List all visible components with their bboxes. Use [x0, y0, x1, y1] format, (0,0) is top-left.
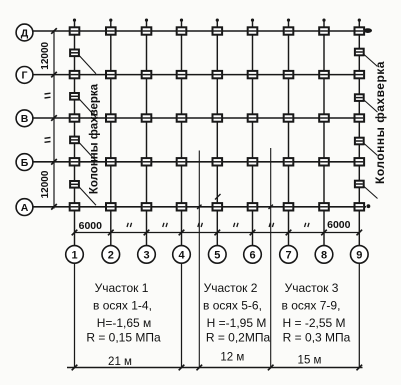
column square 7-Д	[284, 27, 294, 34]
column square 9-Д	[355, 27, 365, 34]
ditto mark span at x=270	[269, 223, 270, 227]
fachwerk column square axis1 y=52	[70, 50, 79, 57]
column square 9-В	[355, 114, 365, 121]
tick bottom dim at axis 5	[215, 230, 221, 236]
ditto mark (В-Б)	[45, 137, 51, 140]
column square 8-Д	[319, 27, 329, 34]
leader fachwerk left y=96	[79, 98, 97, 117]
svg-text:12 м: 12 м	[220, 352, 244, 364]
column square 2-В	[106, 114, 116, 121]
fachwerk column square axis1 y=96	[70, 93, 79, 100]
svg-text:Д: Д	[21, 27, 29, 39]
wire section boundary 2 (x=271)	[270, 148, 272, 368]
axis circle А	[16, 199, 33, 216]
column square 3-В	[142, 114, 152, 121]
svg-text:15 м: 15 м	[298, 355, 322, 367]
column square 5-Б	[213, 158, 223, 165]
ditto mark span at x=128	[127, 223, 128, 227]
column square 8-Г	[319, 71, 329, 78]
wire axis Г horizontal	[33, 74, 365, 76]
wire axis Д horizontal	[33, 30, 365, 32]
svg-text:1: 1	[71, 249, 77, 261]
wire bottom section line	[67, 367, 363, 369]
tick boundary2 at row А	[269, 205, 273, 209]
column square 5-Д	[213, 27, 223, 34]
tick bottom line x=359	[357, 365, 363, 371]
tick bottom line x=181	[179, 365, 185, 371]
tick bottom dim at axis 9	[357, 230, 363, 236]
tick bottom dim at axis 2	[108, 230, 114, 236]
leader fachwerk left y=52	[79, 55, 97, 74]
node top dot axis 4	[180, 19, 183, 22]
tick bottom dim at axis 4	[179, 230, 185, 236]
svg-text:в осях 5-6,: в осях 5-6,	[203, 299, 262, 313]
column square 7-Б	[284, 158, 294, 165]
column square 8-А	[319, 203, 329, 210]
tick bottom dim at axis 3	[144, 230, 150, 236]
fachwerk column square axis9 y=97	[355, 94, 364, 101]
column square 7-Г	[284, 71, 294, 78]
node top dot axis 8	[322, 19, 325, 22]
wire axis 3 vertical	[146, 21, 148, 246]
svg-text:Н=-1,65 м: Н=-1,65 м	[97, 316, 152, 330]
svg-text:Н = -2,55 М: Н = -2,55 М	[282, 316, 345, 330]
column square 2-Д	[106, 27, 116, 34]
wire axis 1 vertical	[74, 21, 76, 246]
tick left dim at axis А	[51, 204, 57, 210]
column square 6-Д	[248, 27, 258, 34]
column square 7-В	[284, 114, 294, 121]
node top dot axis 3	[145, 19, 148, 22]
axis circle 8	[315, 246, 333, 264]
node top dot axis 7	[287, 19, 290, 22]
leader fachwerk right y=97	[364, 100, 378, 113]
wire axis Б horizontal	[33, 161, 365, 163]
axis circle Г	[16, 67, 33, 84]
column square 7-А	[284, 203, 294, 210]
node top dot axis 5	[216, 19, 219, 22]
column square 2-А	[106, 203, 116, 210]
column square 6-А	[248, 203, 258, 210]
fachwerk column square axis1 y=139	[70, 137, 79, 144]
svg-text:Участок 1: Участок 1	[95, 281, 149, 295]
wire left dimension line	[53, 30, 55, 209]
leader fachwerk left y=184	[79, 186, 97, 205]
wire axis 8 vertical	[323, 21, 325, 246]
svg-text:в осях 1-4,: в осях 1-4,	[93, 299, 152, 313]
wire axis В horizontal	[33, 117, 365, 119]
node top dot axis 9	[358, 19, 361, 22]
column square 9-Б	[355, 158, 365, 165]
wire axis 7 vertical	[288, 21, 290, 246]
leader fachwerk left y=139	[79, 142, 97, 161]
tick bottom line x=74	[72, 365, 78, 371]
leader fachwerk right y=141	[364, 143, 378, 156]
wire axis 5 vertical	[216, 21, 218, 246]
svg-text:4: 4	[178, 249, 185, 261]
ditto mark span at x=306	[305, 223, 306, 227]
column square 4-А	[177, 203, 187, 210]
blob right end axis Д	[364, 28, 372, 33]
column square 8-Б	[319, 158, 329, 165]
axis circle В	[16, 110, 33, 127]
svg-text:R = 0,3 МПа: R = 0,3 МПа	[283, 331, 351, 345]
ditto mark (Г-В)	[45, 92, 51, 95]
column square 6-Г	[248, 71, 258, 78]
ditto mark span at x=199	[198, 223, 199, 227]
tick bottom line x=270	[268, 365, 274, 371]
tick left dim at axis Д	[51, 28, 57, 34]
column square 1-Б	[70, 158, 80, 165]
wire axis 9 vertical	[358, 21, 360, 246]
svg-text:6000: 6000	[79, 220, 103, 232]
column square 5-В	[213, 114, 223, 121]
axis circle Б	[16, 154, 33, 171]
column square 2-Г	[106, 71, 116, 78]
tick bottom dim at axis 6	[250, 230, 256, 236]
svg-text:6000: 6000	[327, 219, 351, 231]
wire axis 6 vertical	[252, 21, 254, 246]
axis circle 5	[209, 246, 227, 264]
tick bottom line x=199	[197, 365, 203, 371]
column square 4-Д	[177, 27, 187, 34]
wire axis 4 vertical	[181, 21, 183, 246]
wire axis 1 below circle	[74, 263, 76, 367]
fachwerk column square axis1 y=184	[70, 181, 79, 188]
column square 1-Г	[70, 71, 80, 78]
svg-text:А: А	[21, 202, 29, 214]
column square 6-Б	[248, 158, 258, 165]
svg-text:21 м: 21 м	[108, 356, 132, 368]
column square 1-Д	[70, 27, 80, 34]
column square 3-Г	[142, 71, 152, 78]
fachwerk column square axis9 y=141	[355, 138, 364, 145]
column square 8-В	[319, 114, 329, 121]
column square 1-В	[70, 114, 80, 121]
wire axis А horizontal	[33, 206, 366, 208]
axis circle Д	[16, 24, 33, 41]
tick bottom dim at axis 8	[321, 230, 327, 236]
axis circle 6	[244, 246, 262, 264]
ditto mark span at x=164	[163, 223, 164, 227]
svg-text:12000: 12000	[40, 41, 51, 69]
axis circle 4	[173, 246, 191, 264]
column square 4-Г	[177, 71, 187, 78]
tick left dim at axis Г	[51, 72, 57, 78]
fachwerk column square axis9 y=184	[355, 181, 364, 188]
svg-text:9: 9	[356, 249, 362, 261]
node top dot axis 1	[73, 19, 76, 22]
column square 5-Г	[213, 71, 223, 78]
wire bottom dimension line	[75, 232, 360, 234]
column square 3-Д	[142, 27, 152, 34]
tick left dim at axis Б	[51, 159, 57, 165]
svg-text:Г: Г	[22, 70, 28, 82]
svg-text:Участок 2: Участок 2	[204, 281, 258, 295]
leader fachwerk right y=52	[364, 54, 378, 67]
wire axis 2 vertical	[110, 21, 112, 246]
svg-text:5: 5	[214, 249, 220, 261]
column square 3-А	[142, 203, 152, 210]
svg-text:Колонны фахверка: Колонны фахверка	[89, 83, 101, 194]
wire axis 4 below circle	[181, 263, 183, 367]
wire axis 9 below circle	[358, 263, 360, 367]
svg-text:2: 2	[108, 249, 114, 261]
column square 6-В	[248, 114, 258, 121]
svg-text:8: 8	[321, 249, 327, 261]
svg-text:в осях 7-9,: в осях 7-9,	[282, 299, 341, 313]
svg-text:Участок 3: Участок 3	[285, 281, 339, 295]
column square 2-Б	[106, 158, 116, 165]
column square 9-А	[355, 203, 365, 210]
axis circle 1	[66, 246, 84, 264]
tick boundary1 at row А	[197, 205, 201, 209]
svg-text:Колонны фахверка: Колонны фахверка	[373, 61, 387, 184]
svg-text:3: 3	[143, 249, 149, 261]
axis circle 9	[351, 246, 369, 264]
node top dot axis 2	[109, 19, 112, 22]
svg-text:Н =-1,95 М: Н =-1,95 М	[207, 316, 267, 330]
axis circle 7	[280, 246, 298, 264]
svg-text:7: 7	[285, 249, 291, 261]
svg-text:В: В	[21, 113, 29, 125]
svg-text:R = 0,2МПа: R = 0,2МПа	[206, 331, 271, 345]
column square 5-А	[213, 203, 223, 210]
tick bottom dim at axis 1	[72, 230, 78, 236]
node right end axis А	[367, 204, 371, 208]
tick small mark axis5 above row А	[215, 194, 221, 200]
axis circle 3	[138, 246, 156, 264]
tick left dim at axis В	[51, 115, 57, 121]
svg-text:12000: 12000	[40, 170, 51, 198]
column square 9-Г	[355, 71, 365, 78]
ditto mark span at x=235	[234, 223, 235, 227]
node top dot axis 6	[251, 19, 254, 22]
leader fachwerk right y=184	[364, 186, 378, 199]
axis circle 2	[102, 246, 120, 264]
column square 4-Б	[177, 158, 187, 165]
tick bottom dim at axis 7	[286, 230, 292, 236]
column square 4-В	[177, 114, 187, 121]
wire section boundary 1 (x=199)	[198, 151, 200, 368]
column square 3-Б	[142, 158, 152, 165]
svg-text:Б: Б	[21, 157, 29, 169]
column square 1-А	[70, 203, 80, 210]
svg-text:6: 6	[249, 249, 255, 261]
svg-text:R = 0,15 МПа: R = 0,15 МПа	[86, 331, 161, 345]
fachwerk column square axis9 y=52	[355, 49, 364, 56]
